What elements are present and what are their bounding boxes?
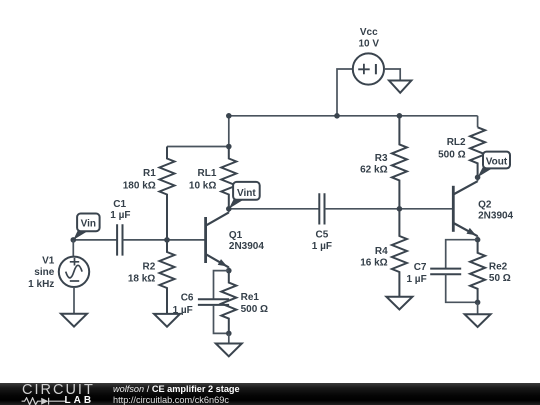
- wire R1-RL1 rail: [167, 146, 229, 148]
- label C7 value: [406, 262, 426, 285]
- svg-text:500 Ω: 500 Ω: [438, 149, 465, 160]
- node junction R3-R4 mid rail: [397, 206, 403, 212]
- footer url text: [113, 395, 229, 405]
- svg-text:V1: V1: [42, 256, 55, 267]
- label C1 value: [110, 199, 130, 221]
- svg-text:sine: sine: [34, 267, 54, 278]
- voltage source V1: [59, 240, 89, 314]
- capacitor C1: [117, 224, 122, 255]
- label RL1 value: [189, 168, 217, 191]
- label Q1 value: [229, 230, 264, 252]
- resistor R4: [392, 209, 407, 297]
- transistor Q2: [453, 177, 477, 239]
- label R3 value: [360, 153, 388, 175]
- svg-text:Vout: Vout: [486, 157, 508, 168]
- transistor Q1: [206, 209, 229, 271]
- capacitor C6: [198, 299, 229, 305]
- wire RL2 top corner: [477, 116, 479, 128]
- ground for R2: [154, 314, 180, 327]
- wire Re1 ground lead: [228, 333, 230, 343]
- svg-text:16 kΩ: 16 kΩ: [360, 257, 387, 268]
- resistor RL1: [221, 147, 236, 209]
- resistor Re1: [221, 271, 236, 334]
- node junction Vcc on rail: [334, 113, 340, 119]
- wire top rail: [229, 115, 478, 117]
- voltage source Vcc: [353, 53, 384, 84]
- svg-text:Re2: Re2: [489, 262, 508, 273]
- node Vint junction: [226, 206, 232, 212]
- label RL2 value: [438, 137, 466, 160]
- resistor R3: [392, 116, 407, 209]
- CircuitLab logo wordmark: [22, 382, 95, 398]
- svg-text:Q1: Q1: [229, 230, 243, 241]
- label Vcc value: [359, 27, 380, 49]
- label C5 value: [312, 230, 332, 253]
- svg-text:Vint: Vint: [237, 188, 256, 199]
- svg-text:500 Ω: 500 Ω: [241, 304, 268, 315]
- svg-text:C1: C1: [113, 199, 126, 210]
- svg-text:62 kΩ: 62 kΩ: [360, 164, 387, 175]
- svg-text:Q2: Q2: [478, 200, 492, 211]
- svg-text:1 µF: 1 µF: [173, 305, 193, 316]
- capacitor C5: [319, 193, 324, 224]
- node junction R1-RL1 rail: [226, 144, 232, 150]
- net flag Vin: [73, 214, 99, 240]
- svg-text:10 V: 10 V: [359, 38, 380, 49]
- svg-text:180 kΩ: 180 kΩ: [123, 180, 156, 191]
- label C6 value: [173, 292, 194, 316]
- net flag Vint: [229, 182, 260, 209]
- svg-text:C6: C6: [181, 292, 194, 303]
- label V1 value: [28, 256, 55, 290]
- resistor R1: [160, 147, 175, 240]
- wire top-left drop to R1/RL1 rail: [228, 116, 230, 147]
- svg-text:1 µF: 1 µF: [312, 241, 332, 252]
- svg-text:18 kΩ: 18 kΩ: [128, 273, 155, 284]
- wire mid rail right (C5 to Q2 base): [325, 208, 454, 210]
- ground for R4: [386, 297, 412, 310]
- wire C7 branch bottom: [446, 274, 478, 302]
- svg-text:R3: R3: [375, 153, 388, 164]
- resistor R2: [160, 240, 175, 314]
- footer title text: [113, 384, 240, 394]
- node Q1 emitter junction: [226, 268, 232, 274]
- svg-text:RL1: RL1: [197, 168, 216, 179]
- svg-text:10 kΩ: 10 kΩ: [189, 180, 216, 191]
- label Re1 value: [241, 292, 268, 315]
- wire mid rail left (Vint to C5): [229, 208, 319, 210]
- svg-text:2N3904: 2N3904: [229, 241, 264, 252]
- footer bar: [0, 383, 540, 405]
- ground for V1: [61, 314, 87, 327]
- svg-text:Re1: Re1: [241, 292, 260, 303]
- wire Vcc left lead: [337, 69, 353, 116]
- label R1 value: [123, 168, 156, 191]
- ground for Re2: [465, 314, 491, 327]
- svg-text:Vcc: Vcc: [360, 27, 378, 38]
- svg-text:2N3904: 2N3904: [478, 211, 513, 222]
- wire input rail left (Vin to C1): [73, 239, 117, 241]
- resistor Re2: [470, 240, 485, 303]
- wire Re2 ground lead: [477, 302, 479, 314]
- svg-text:1 kHz: 1 kHz: [28, 279, 54, 290]
- label Q2 value: [478, 200, 513, 222]
- CircuitLab logo LAB: [65, 395, 95, 405]
- node Re1 bottom junction: [226, 331, 232, 337]
- node Vin junction: [71, 237, 77, 243]
- svg-text:1 µF: 1 µF: [406, 274, 426, 285]
- node junction R1-R2 on input rail: [164, 237, 170, 243]
- svg-text:50 Ω: 50 Ω: [489, 273, 511, 284]
- label Re2 value: [489, 262, 511, 284]
- label R2 value: [128, 261, 156, 284]
- svg-text:C5: C5: [316, 230, 329, 241]
- node junction R3 top: [397, 113, 403, 119]
- CircuitLab logo squiggle: [21, 397, 67, 405]
- node Re2 bottom junction: [475, 300, 481, 306]
- net flag Vout: [478, 152, 510, 178]
- svg-text:R2: R2: [143, 261, 156, 272]
- svg-text:C7: C7: [414, 262, 427, 273]
- node Vout junction: [475, 175, 481, 181]
- wire C6 branch top: [214, 271, 229, 300]
- svg-text:R4: R4: [375, 246, 388, 257]
- wire C7 branch top: [446, 240, 478, 269]
- capacitor C7: [430, 269, 461, 275]
- node Q2 emitter junction: [475, 237, 481, 243]
- svg-text:R1: R1: [143, 168, 156, 179]
- ground for Vcc: [389, 81, 411, 93]
- resistor RL2: [470, 127, 485, 177]
- label R4 value: [360, 246, 388, 269]
- svg-text:Vin: Vin: [81, 219, 96, 230]
- wire C6 branch bottom: [214, 305, 229, 333]
- ground for Re1: [216, 344, 242, 357]
- svg-text:RL2: RL2: [447, 137, 466, 148]
- wire input rail right (C1 to Q1 base): [123, 239, 206, 241]
- svg-text:1 µF: 1 µF: [110, 210, 130, 221]
- wire Vcc right lead: [384, 69, 400, 81]
- node junction top-left rail: [226, 113, 232, 119]
